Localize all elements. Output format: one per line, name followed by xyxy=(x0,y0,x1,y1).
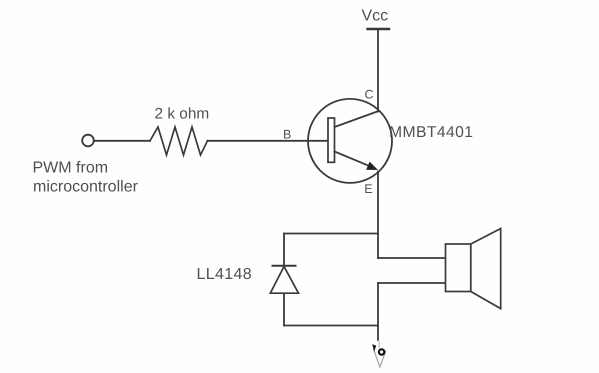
svg-text:B: B xyxy=(283,128,291,142)
svg-text:C: C xyxy=(365,87,374,101)
svg-text:LL4148: LL4148 xyxy=(197,266,253,283)
svg-text:E: E xyxy=(364,182,372,196)
svg-text:MMBT4401: MMBT4401 xyxy=(389,124,473,141)
svg-text:Vcc: Vcc xyxy=(362,8,389,25)
svg-text:microcontroller: microcontroller xyxy=(33,179,139,196)
svg-text:PWM from: PWM from xyxy=(33,160,109,177)
svg-text:2 k ohm: 2 k ohm xyxy=(155,106,210,123)
